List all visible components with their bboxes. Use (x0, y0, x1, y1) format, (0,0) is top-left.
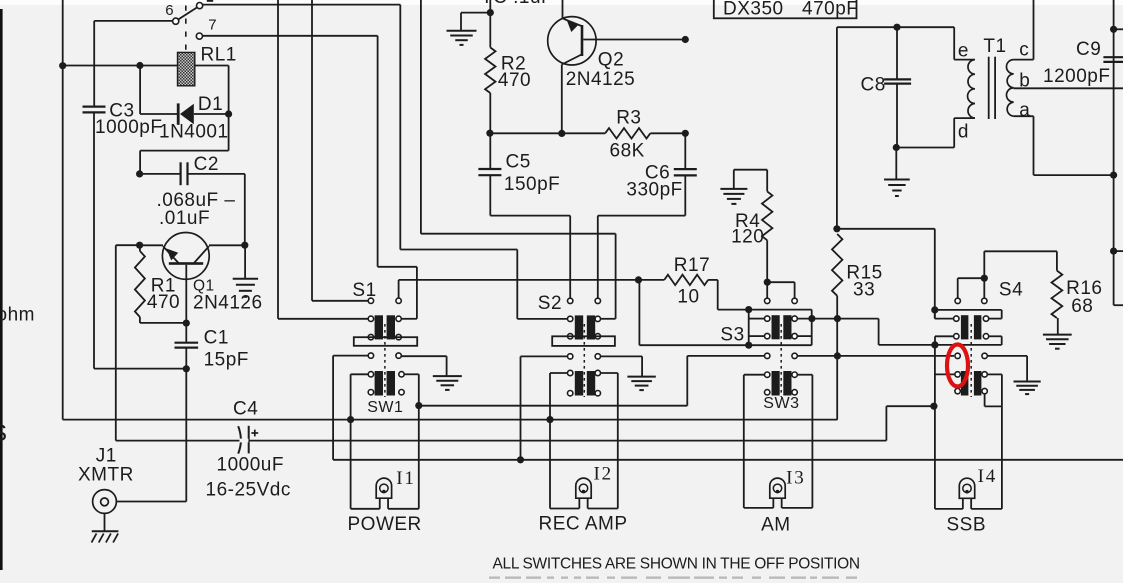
wire to S4 (837, 228, 935, 230)
switch S4 pole2 contacts (955, 372, 960, 377)
annotation red ellipse (947, 345, 968, 387)
svg-text:I2: I2 (594, 464, 613, 485)
wire S2 box left (550, 372, 568, 374)
wire S2 box right (600, 372, 617, 374)
wire R15 bottom (836, 296, 838, 420)
wire S2 row3 left (521, 355, 568, 357)
svg-text:SSB: SSB (947, 515, 987, 536)
wire contact top bus (203, 4, 400, 6)
svg-text:RL1: RL1 (201, 45, 237, 66)
wire (402, 318, 417, 320)
svg-text:1000uF: 1000uF (217, 455, 284, 476)
wire S2 row3 right to ground (600, 355, 642, 357)
wire C6 top (684, 133, 686, 169)
svg-text:S3: S3 (720, 325, 744, 346)
resistor R2 (485, 48, 495, 94)
svg-text:Q2: Q2 (598, 50, 624, 71)
svg-text:C9: C9 (1076, 39, 1101, 60)
wire T1 b tap (1014, 87, 1123, 89)
wire (398, 280, 400, 301)
switch S2 slider plate (552, 336, 615, 346)
wire stub (1114, 28, 1123, 30)
wire S3 pole1 right drop (811, 310, 813, 346)
svg-text:C5: C5 (506, 152, 531, 173)
switch S1 slider dashed (384, 324, 386, 397)
wire S1 box right (404, 373, 419, 375)
svg-text:R17: R17 (674, 255, 710, 276)
relay contact arm (178, 7, 198, 20)
switch S3 pole1 bars (772, 315, 780, 339)
wire (600, 318, 615, 320)
wire C5 top (489, 133, 491, 169)
svg-text:TC .1uF: TC .1uF (481, 0, 553, 8)
svg-text:68: 68 (1071, 296, 1093, 317)
node junction (136, 170, 143, 177)
wire (278, 318, 368, 320)
ground (447, 30, 477, 32)
node junction (1110, 172, 1117, 179)
svg-text:470pF: 470pF (802, 0, 858, 20)
wire D1 left (139, 66, 141, 115)
wire bus (63, 419, 838, 421)
switch S1 pole1 bars (375, 315, 383, 339)
node junction (981, 275, 988, 282)
wire S3 row3 left (687, 355, 764, 357)
wire S3 box left (744, 374, 765, 376)
switch S4 slider dashed (970, 324, 972, 397)
wire T1 d tap (896, 147, 954, 149)
wire C8 drop (836, 27, 838, 229)
svg-text:150pF: 150pF (504, 174, 560, 195)
node junction S3 top (764, 279, 771, 286)
node junction (183, 365, 190, 372)
transistor Q2 (548, 17, 596, 65)
svg-text:2N4125: 2N4125 (566, 69, 636, 90)
transformer T1 secondary winding (1006, 60, 1013, 74)
relay actuator dashed link (185, 6, 187, 53)
svg-text:.01uF: .01uF (159, 208, 210, 229)
wire J1 ground stem (104, 513, 106, 531)
node junction (558, 130, 565, 137)
resistor R4 (762, 191, 772, 240)
wire R4 bottom (766, 240, 768, 301)
node junction (183, 320, 190, 327)
wire (312, 300, 368, 302)
svg-text:POWER: POWER (348, 514, 422, 535)
wire (399, 5, 401, 250)
chassis ground (92, 530, 119, 532)
lamp I4 (959, 478, 974, 498)
svg-text:T1: T1 (983, 36, 1006, 57)
wire T1 a tap (1014, 115, 1034, 117)
wire S4 row3 right to ground (987, 355, 1027, 357)
transistor Q1 (162, 233, 209, 280)
node junction (893, 24, 900, 31)
node junction (517, 456, 524, 463)
wire contact 7 bus (203, 35, 378, 37)
wire R2 bottom (489, 93, 491, 133)
svg-text:330pF: 330pF (626, 180, 682, 201)
switch S1 pole2 bars (375, 371, 383, 396)
node junction (546, 416, 553, 423)
switch S3 pole2 contacts (765, 372, 770, 377)
capacitor C6 (674, 168, 697, 170)
wire C8 top (837, 26, 954, 28)
resistor R1 (135, 251, 145, 317)
relay contact common (197, 3, 203, 9)
ground (627, 376, 655, 378)
wire S4 box right (987, 373, 1002, 375)
svg-text:1200pF: 1200pF (1043, 66, 1110, 87)
switch S2 pole2 bars (575, 371, 583, 396)
wire T1 e entry (953, 27, 955, 59)
wire (311, 0, 313, 301)
svg-text:I1: I1 (396, 468, 415, 489)
wire (416, 267, 418, 319)
wire right edge vertical (1113, 0, 1115, 305)
svg-text:I3: I3 (786, 468, 805, 489)
switch S1 top contacts (368, 298, 373, 303)
wire R16 bottom (1057, 318, 1059, 335)
svg-text:REC AMP: REC AMP (539, 514, 628, 535)
wire Q2 collector (561, 65, 563, 134)
node junction (241, 242, 248, 249)
switch S4 pole2 bars (961, 371, 969, 396)
svg-text:XMTR: XMTR (78, 465, 134, 486)
svg-text:R3: R3 (616, 108, 641, 129)
switch S4 pole1 bars (961, 315, 969, 339)
svg-text:S2: S2 (538, 293, 562, 314)
wire C1 top (185, 323, 187, 343)
switch S3 top contacts (765, 298, 770, 303)
svg-text:e: e (958, 41, 969, 62)
ground (720, 188, 747, 190)
svg-text:2N4126: 2N4126 (193, 293, 263, 314)
wire (277, 0, 279, 319)
wire (650, 132, 685, 134)
node junction (682, 130, 689, 137)
wire I4 box bottom (935, 508, 963, 510)
wire D1 right (194, 113, 229, 115)
wire C1 bottom (185, 348, 187, 369)
svg-text:J1: J1 (96, 446, 117, 467)
wire C6 bottom (684, 175, 686, 215)
wire contact 6 feed (94, 20, 173, 22)
switch S2 slider dashed (583, 324, 585, 397)
svg-text:I4: I4 (978, 466, 997, 487)
wire (516, 250, 518, 319)
relay contact 6 (173, 18, 179, 24)
wire (62, 0, 64, 420)
node junction (745, 306, 752, 313)
capacitor C1 (175, 342, 199, 344)
wire S3 pole1 left drop (748, 310, 750, 346)
wire (639, 279, 665, 281)
switch S3 slider dashed (780, 324, 782, 397)
wire R1 top (139, 245, 141, 251)
wire T1 ground stem (895, 148, 897, 180)
capacitor C8 (884, 78, 911, 80)
switch S2 top contacts (568, 298, 573, 303)
switch S1 slider plate (354, 337, 417, 346)
resistor R3 (605, 128, 650, 138)
wire S4 pole1 wrap top (935, 309, 1002, 311)
page left edge bar (0, 9, 3, 570)
wire J1 riser (185, 369, 187, 502)
switch S1 row3 contacts (368, 353, 373, 358)
ground (233, 278, 258, 280)
switch S1 pole2 contacts (368, 372, 373, 377)
svg-text:6: 6 (165, 2, 174, 19)
switch S2 pole1 contacts (568, 316, 573, 321)
wire stub (1114, 250, 1123, 252)
svg-text:C8: C8 (861, 75, 886, 96)
cut-off text row at bottom (489, 577, 500, 579)
wire S3 wrap bottom (639, 344, 811, 346)
svg-text:ALL SWITCHES ARE SHOWN IN THE: ALL SWITCHES ARE SHOWN IN THE OFF POSITI… (493, 556, 860, 573)
capacitor C2 (180, 162, 182, 185)
switch S2 pole2 contacts (568, 370, 573, 375)
svg-text:b: b (1019, 71, 1030, 92)
wire (615, 234, 617, 319)
svg-text:D1: D1 (198, 94, 223, 115)
ground (1043, 334, 1072, 336)
svg-text:C1: C1 (204, 328, 229, 349)
svg-text:470: 470 (498, 70, 531, 91)
switch S4 top contacts (955, 298, 960, 303)
connector J1 (93, 490, 117, 514)
node junction (415, 402, 422, 409)
wire (517, 318, 567, 320)
svg-text:SW1: SW1 (367, 399, 403, 416)
wire S1 row3 left (333, 355, 368, 357)
switch S3 pole1 contacts (765, 316, 770, 321)
wire relay right to D1 (195, 65, 229, 67)
box DX350 (714, 0, 857, 18)
wire T1 c tap (1014, 59, 1034, 61)
wire S3 box right (797, 374, 812, 376)
svg-text:C2: C2 (194, 154, 219, 175)
switch S1 pole1 contacts (368, 316, 373, 321)
node junction (136, 62, 143, 69)
svg-text:S4: S4 (999, 280, 1023, 301)
svg-text:16-25Vdc: 16-25Vdc (206, 480, 291, 501)
wire bus (419, 405, 688, 407)
wire R4 top (734, 169, 767, 171)
diode D1 (177, 103, 180, 124)
lamp I2 (576, 478, 591, 498)
svg-text:S1: S1 (352, 280, 376, 301)
node junction (635, 276, 642, 283)
wire C3 bottom (93, 112, 95, 368)
wire S1 row3 right to ground (401, 355, 446, 357)
switch S2 row3 contacts (568, 354, 573, 359)
wire S4 pole2 bottom right (984, 393, 986, 406)
node junction (136, 242, 143, 249)
transformer T1 core (988, 57, 990, 119)
svg-text:68K: 68K (610, 141, 645, 162)
switch S3 pole2 bars (772, 371, 780, 396)
wire (797, 318, 878, 320)
svg-text:AM: AM (761, 515, 791, 536)
ground (1014, 381, 1041, 383)
wire Q2 base right (583, 39, 685, 41)
wire S4 pole1 wrap bottom (935, 335, 954, 337)
wire (490, 132, 605, 134)
wire (377, 36, 379, 267)
wire R1 bottom (139, 317, 141, 323)
wire I2 box bottom (550, 508, 579, 510)
svg-text:10: 10 (677, 287, 699, 308)
wire C2 right (188, 173, 245, 175)
wire (878, 319, 880, 345)
wire (63, 65, 178, 67)
node junction (833, 225, 840, 232)
svg-text:a: a (1019, 100, 1030, 121)
wire bus (332, 356, 334, 460)
wire (421, 233, 616, 235)
switch S3 row3 contacts (765, 353, 770, 358)
wire R16 top (984, 250, 1057, 252)
wire R17 right (708, 279, 718, 281)
node junction (1110, 248, 1117, 255)
svg-text:7: 7 (208, 17, 217, 34)
node junction (834, 352, 841, 359)
svg-text:S: S (0, 420, 8, 447)
wire S3-S4 row3 wire (797, 355, 954, 357)
switch S4 pole1 contacts (954, 316, 959, 321)
svg-text:C4: C4 (233, 399, 258, 420)
wire (400, 249, 517, 251)
resistor R16 (1052, 271, 1063, 318)
wire I3 box bottom (744, 507, 774, 509)
node junction (893, 144, 900, 151)
capacitor C3 (83, 105, 106, 107)
svg-text:33: 33 (853, 280, 875, 301)
wire S3 top link (767, 281, 794, 283)
wire (420, 0, 422, 234)
node junction (931, 341, 938, 348)
node junction (486, 130, 493, 137)
wire bus (116, 244, 140, 246)
resistor R17 (664, 275, 708, 285)
switch S2 pole1 bars (575, 315, 583, 339)
wire C5 bottom (489, 175, 491, 215)
wire Q2 top (562, 0, 564, 19)
resistor R15 (832, 234, 842, 296)
node junction (834, 315, 841, 322)
node junction (59, 62, 66, 69)
svg-text:1N4001: 1N4001 (159, 122, 229, 143)
wire C8 stem (896, 27, 898, 79)
svg-text:120: 120 (731, 227, 764, 248)
wire (885, 406, 887, 440)
wire ground stub (461, 12, 490, 14)
switch S4 row3 contacts (955, 353, 960, 358)
node junction (745, 342, 752, 349)
svg-text:15pF: 15pF (204, 350, 249, 371)
wire S4 top feed (983, 251, 985, 278)
svg-text:c: c (1019, 40, 1029, 61)
node junction (225, 110, 232, 117)
wire Q1 collector right (209, 244, 245, 246)
node junction (682, 36, 689, 43)
transformer T1 primary winding (968, 60, 975, 75)
node junction (487, 9, 494, 16)
node junction (1110, 26, 1117, 33)
ground (433, 375, 462, 377)
wire (378, 266, 417, 268)
svg-text:d: d (958, 122, 969, 143)
wire Q1 emitter left (140, 244, 163, 246)
wire S4 box left (935, 373, 955, 375)
lamp I3 (770, 478, 785, 498)
svg-text:1000pF: 1000pF (95, 117, 162, 138)
cut-off digit above relay contact 8 (207, 0, 213, 2)
wire I1 box bottom (351, 508, 380, 510)
wire S4 top link (958, 277, 985, 279)
svg-text:SW3: SW3 (763, 395, 799, 412)
lamp I1 (376, 478, 391, 498)
node junction (931, 306, 938, 313)
wire C8 bottom (896, 84, 898, 148)
wire R2 top (489, 0, 491, 48)
node junction (808, 315, 815, 322)
node junction (347, 416, 354, 423)
wire Q1 ground stem (244, 245, 246, 279)
svg-text:DX350: DX350 (723, 0, 784, 20)
svg-text:470: 470 (147, 292, 180, 313)
capacitor C4 polarized (238, 426, 241, 453)
wire R4 ground stem (733, 170, 735, 189)
node junction (930, 403, 937, 410)
ground (884, 179, 910, 181)
wire C2 left (140, 173, 181, 175)
relay contact 7 (196, 33, 202, 39)
wire S1 box left (351, 373, 369, 375)
capacitor C9 (1103, 56, 1123, 58)
svg-text:ohm: ohm (0, 305, 35, 326)
capacitor C5 (478, 168, 501, 170)
